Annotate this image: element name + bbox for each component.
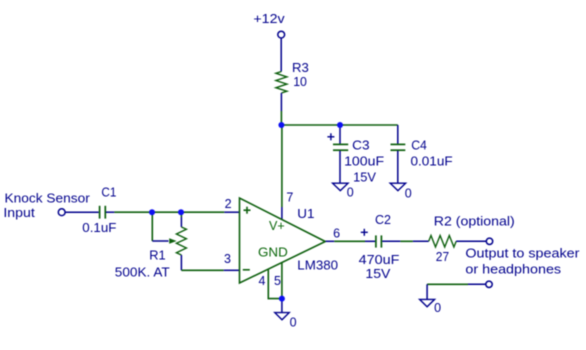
svg-text:100uF: 100uF [344, 155, 384, 169]
ground at lower output [420, 284, 442, 315]
svg-text:R1: R1 [149, 248, 165, 262]
svg-text:0: 0 [347, 185, 354, 199]
input terminal [3, 192, 89, 220]
output terminal lower [486, 281, 492, 287]
svg-text:5: 5 [274, 274, 281, 288]
svg-text:C1: C1 [101, 186, 116, 200]
svg-text:15V: 15V [353, 171, 377, 185]
svg-text:27: 27 [436, 250, 449, 264]
svg-text:3: 3 [224, 252, 231, 266]
svg-text:470uF: 470uF [359, 253, 400, 267]
svg-text:500K. AT: 500K. AT [115, 265, 170, 279]
svg-text:R3: R3 [292, 61, 309, 75]
svg-text:15V: 15V [365, 267, 391, 281]
svg-text:6: 6 [333, 227, 340, 241]
junction at R1 top [178, 209, 184, 215]
ground below op-amp [275, 299, 297, 330]
power terminal +12v [253, 12, 285, 38]
wire op-amp pins 4 and 5 to ground [268, 262, 282, 298]
wire C1 to op-amp pin 2 [114, 211, 239, 213]
junction at wiper tap [149, 209, 155, 215]
svg-text:10: 10 [293, 75, 307, 89]
svg-text:C3: C3 [352, 139, 369, 153]
junction at C3 tap [337, 122, 343, 128]
svg-text:2: 2 [225, 197, 232, 211]
svg-text:Input: Input [3, 206, 35, 220]
ground below C3 [333, 183, 354, 199]
wire power bus to C3 and C4 [281, 124, 397, 126]
svg-text:Output to speaker: Output to speaker [465, 246, 579, 260]
svg-text:or headphones: or headphones [465, 263, 561, 277]
svg-text:0: 0 [434, 301, 441, 315]
wire junction down to R1 wiper [151, 212, 153, 241]
svg-text:Knock Sensor: Knock Sensor [5, 192, 90, 206]
wire V+ node down to op-amp pin 7 [281, 125, 283, 220]
potentiometer R1 [115, 212, 187, 279]
svg-text:0: 0 [405, 186, 412, 200]
svg-text:R2 (optional): R2 (optional) [434, 214, 515, 228]
capacitor C2 [359, 213, 401, 281]
svg-text:LM380: LM380 [297, 259, 338, 273]
svg-text:7: 7 [286, 191, 293, 205]
wire C2 to R2 [400, 240, 413, 242]
svg-text:U1: U1 [297, 207, 314, 221]
svg-text:4: 4 [259, 274, 266, 288]
svg-text:C4: C4 [411, 139, 427, 153]
ground below C4 [390, 183, 412, 200]
capacitor C4 [391, 125, 453, 183]
svg-text:GND: GND [258, 246, 288, 260]
label output to speaker [465, 246, 579, 276]
svg-text:V+: V+ [269, 219, 285, 233]
svg-text:+12v: +12v [253, 12, 285, 26]
output terminal upper [486, 238, 492, 244]
svg-text:0: 0 [290, 316, 297, 330]
resistor R3 [276, 61, 309, 111]
junction below pin 5 [279, 296, 285, 302]
svg-text:0.01uF: 0.01uF [411, 155, 453, 169]
op-amp U1 LM380 [224, 191, 340, 288]
wire R1 bottom to op-amp pin 3 [181, 269, 239, 271]
node junction below R3 [278, 122, 284, 128]
capacitor C3 [327, 125, 384, 185]
svg-text:0.1uF: 0.1uF [82, 221, 116, 235]
wire op-amp output pin 6 to C2 [326, 240, 375, 242]
svg-text:C2: C2 [375, 213, 391, 227]
resistor R2 [413, 214, 515, 264]
wire +12v terminal to R3 [280, 38, 282, 71]
wire ground to lower output terminal [427, 283, 486, 285]
capacitor C1 [65, 186, 117, 236]
wire R3 to V+ node [280, 111, 282, 125]
